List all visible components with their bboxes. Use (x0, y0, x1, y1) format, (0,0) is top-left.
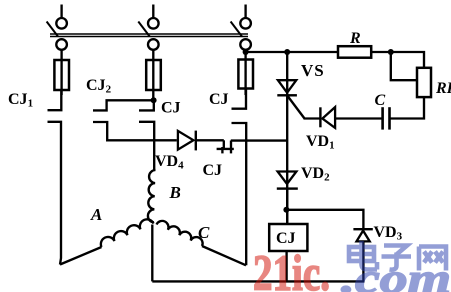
winding A coil (101, 219, 154, 247)
wire VD3 to bottom rail (362, 242, 364, 281)
contact CJ1 upper blade (48, 90, 62, 110)
thyristor VS triangle (points down) (278, 80, 296, 93)
svg-text:CJ: CJ (203, 162, 223, 179)
RP wiper wire (391, 52, 417, 80)
svg-text:R: R (349, 30, 361, 47)
trigger wire gate to VD1 (304, 117, 321, 119)
contact CJ (col3) lower blade + wire down to winding C (232, 123, 247, 265)
junction dot VD2 cathode node (283, 207, 289, 213)
svg-text:A: A (90, 205, 102, 224)
potentiometer RP body (417, 68, 431, 97)
switch 3 bottom circle (240, 39, 251, 50)
wire switch2 to fuse2 + through fuse (152, 50, 154, 100)
svg-text:CJ: CJ (209, 91, 229, 108)
watermark hanzi dian (电) (349, 241, 377, 270)
bridge contact tick 2 (230, 141, 232, 154)
junction dot RC node (388, 49, 394, 55)
winding A lead diagonal (60, 247, 102, 265)
bottom rail (152, 280, 364, 282)
contact CJ2 upper blade (left) (93, 100, 154, 110)
svg-text:.com: .com (341, 257, 451, 292)
bridge contact bar (217, 148, 234, 150)
wire bridge contact to VS cathode line (231, 139, 287, 141)
switch 2 bottom circle (148, 39, 159, 50)
contact CJ2 lower blade + riser to VD4 wire (93, 122, 177, 140)
watermark 21ic. (253, 246, 330, 292)
fuse FU1 (54, 60, 69, 90)
svg-text:C: C (198, 223, 210, 242)
contact CJ (col2 right) upper blade (139, 100, 154, 110)
contact CJ (col3) upper blade (232, 88, 247, 109)
diode VD2 (points down) (278, 172, 297, 185)
watermark hanzi wang (网) (419, 247, 446, 271)
wire junction to VD3 (286, 210, 363, 229)
wire top tap to VS anode and R (246, 51, 338, 53)
bridge contact tick 1 (221, 147, 223, 153)
svg-text:B: B (169, 183, 181, 202)
wire CJ box to bottom rail (285, 251, 287, 281)
wire switch1 to fuse1 (60, 50, 62, 61)
svg-text:C: C (375, 92, 386, 109)
switch 1 blade (47, 22, 58, 37)
wire VD2 region (continues VS line) (286, 189, 288, 225)
diode VD3 (points up) (357, 231, 370, 242)
switch 3 blade (231, 22, 242, 37)
disconnect switch phase 3: top stub (244, 5, 246, 18)
wire VD1 to C (336, 117, 382, 119)
diode VD1 (points left) (322, 107, 335, 128)
switch 1 top circle (56, 18, 67, 29)
switch 3 top circle (240, 18, 251, 29)
junction dot VS anode (284, 49, 290, 55)
contactor coil CJ box (269, 224, 307, 251)
wire R right to RP top (371, 52, 424, 68)
winding C lead diagonal (202, 246, 246, 265)
junction dot col3 tap (243, 49, 249, 55)
VS gate diagonal (287, 96, 304, 119)
resistor R (338, 46, 371, 58)
svg-text:21ic.: 21ic. (253, 246, 330, 292)
switch 2 blade (138, 22, 149, 37)
wire C to RP bottom (389, 97, 424, 119)
disconnect switch QS phase 1: top stub (60, 5, 62, 18)
fuse FU2 (146, 60, 161, 90)
winding B coil (148, 170, 156, 222)
VS anode/cathode vertical line (286, 52, 288, 224)
svg-text:CJ: CJ (276, 230, 296, 247)
watermark hanzi zi (子) (382, 246, 412, 270)
watermark .com (341, 257, 451, 292)
svg-text:CJ: CJ (161, 100, 181, 117)
busbar (double line) (50, 34, 248, 37)
VD4-wire segment to bridge contact (197, 139, 224, 141)
winding C coil (157, 221, 203, 246)
wire switch3 to fuse3 + through (244, 50, 246, 95)
svg-text:VS: VS (301, 61, 325, 80)
wire through fuse1 (60, 61, 62, 95)
fuse FU3 (238, 60, 253, 89)
bridge contact CJ: step down (223, 140, 225, 149)
diode VD4 (points right) (178, 131, 194, 150)
switch 1 bottom circle (56, 39, 67, 50)
disconnect switch phase 2: top stub (152, 5, 154, 18)
star point drop wire (151, 225, 153, 282)
switch 2 top circle (148, 18, 159, 29)
junction dot fuse2 bottom (151, 97, 157, 103)
svg-text:RP: RP (435, 80, 451, 97)
capacitor C plates (381, 107, 384, 129)
contact CJ1 lower blade + wire down to winding A (48, 122, 62, 265)
contact CJ (col2 right) lower blade + wire down to winding B (139, 122, 154, 170)
